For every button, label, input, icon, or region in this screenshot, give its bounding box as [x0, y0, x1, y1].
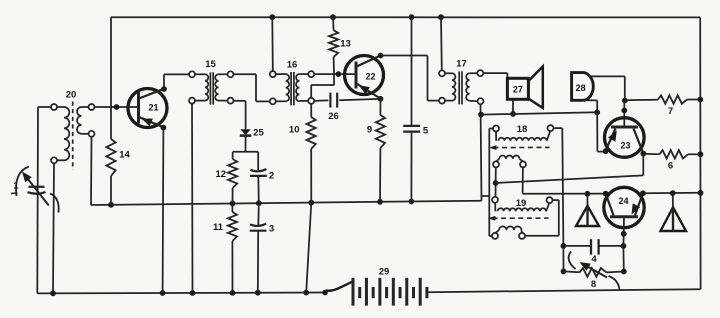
wire Q22 collector to T17 left-bottom: [378, 53, 439, 101]
transformer T20: [51, 90, 95, 171]
wire speaker box to lower wire: [510, 100, 516, 117]
resistor R14: [106, 139, 130, 205]
resistor R6: [643, 150, 703, 171]
svg-text:17: 17: [456, 59, 467, 70]
wire mid rail: [91, 201, 482, 205]
wire battery to bottom rail right: [426, 291, 428, 293]
svg-text:10: 10: [289, 125, 300, 136]
resistor R11: [213, 203, 237, 292]
wire Q23 emitter to lower node: [597, 112, 608, 154]
transistor Q24: [603, 187, 646, 227]
svg-text:11: 11: [213, 222, 224, 233]
wire left edge (antenna line): [36, 107, 39, 293]
capacitor C26: [314, 93, 380, 122]
junction dots on top rail: [269, 14, 444, 20]
svg-text:14: 14: [119, 150, 130, 161]
variable capacitor 1: [11, 167, 59, 213]
wire T15 right-top to T16 left-bottom: [234, 74, 270, 101]
wire earphone bottom to node: [584, 100, 598, 112]
wire Q21 collector up to T15: [161, 74, 189, 92]
svg-text:8: 8: [591, 279, 596, 290]
svg-text:28: 28: [576, 83, 586, 93]
wire T17 right-bottom down: [478, 104, 484, 201]
resistor R12: [216, 159, 238, 203]
wire node A to Q23 collector: [496, 175, 644, 183]
transformer T18: [489, 124, 554, 167]
svg-text:26: 26: [328, 111, 339, 122]
capacitor C2: [250, 169, 274, 203]
wire top supply rail: [111, 16, 700, 18]
wire right rail: [699, 17, 701, 289]
ground triangle left: [576, 191, 599, 226]
transformer T16: [270, 60, 314, 106]
wire earphone top to R7 node: [591, 76, 625, 100]
svg-text:19: 19: [516, 198, 527, 209]
resistor R7: [622, 95, 703, 117]
svg-text:5: 5: [423, 126, 429, 137]
earphone 28: [572, 73, 594, 101]
wire Q24 base down: [621, 217, 627, 275]
wire R13 to T16 right-bottom: [311, 74, 334, 98]
wire bottom rail left segment: [37, 292, 325, 295]
svg-text:16: 16: [287, 60, 298, 71]
wire T20 right-bottom to mid rail: [90, 137, 93, 205]
wire lower horizontal to headphone node: [481, 109, 600, 115]
wire bottom rail right segment: [427, 289, 700, 292]
junction dots on mid rail: [108, 199, 414, 208]
svg-text:9: 9: [367, 125, 372, 136]
wire Q23 collector node: [640, 151, 646, 176]
svg-text:29: 29: [379, 267, 390, 278]
svg-text:15: 15: [205, 59, 216, 70]
transformer T15: [189, 59, 234, 105]
svg-text:22: 22: [365, 72, 375, 82]
svg-text:13: 13: [340, 39, 351, 50]
wire T20 left-top to antenna line: [38, 106, 51, 108]
svg-text:6: 6: [668, 161, 673, 172]
wire IF bus left: [489, 129, 493, 237]
wire Q21 emitter down to bottom rail: [161, 125, 167, 293]
svg-text:2: 2: [269, 171, 274, 182]
svg-text:1: 1: [13, 181, 19, 192]
transformer T17: [439, 59, 484, 105]
wire bias bus right section: [643, 190, 703, 196]
wire T18 sec-left down to A-node: [493, 167, 499, 196]
svg-text:4: 4: [591, 254, 597, 265]
capacitor C5: [403, 17, 429, 201]
wire T20 left-bottom to bottom rail: [53, 163, 54, 293]
battery 29: [353, 267, 427, 306]
wire T18 prim-right jog down: [554, 128, 564, 271]
resistor R9: [367, 99, 385, 202]
svg-text:25: 25: [253, 128, 264, 139]
wire T20 right-top to Q21 base: [95, 104, 138, 110]
wire link to IF bus: [482, 195, 490, 197]
ground triangle right: [661, 190, 687, 231]
wire top-left corner down: [110, 17, 112, 139]
wire top rail to T17 left-top: [440, 17, 443, 70]
svg-text:18: 18: [517, 124, 528, 135]
svg-text:24: 24: [618, 196, 628, 206]
svg-text:12: 12: [216, 169, 227, 180]
svg-text:27: 27: [513, 85, 523, 95]
wire Q22 emitter node: [378, 96, 384, 102]
svg-text:7: 7: [668, 106, 673, 117]
svg-text:21: 21: [148, 103, 158, 113]
wire diode to R12/C2: [233, 152, 259, 170]
svg-text:20: 20: [66, 90, 77, 101]
wire T16 left-top to top rail: [271, 17, 274, 71]
svg-text:23: 23: [620, 141, 630, 151]
resistor R10: [289, 104, 316, 293]
diode D25: [240, 101, 265, 152]
transformer T19: [488, 197, 553, 239]
resistor R13: [329, 17, 351, 74]
wire T19 sec-right to prim-right: [525, 200, 559, 236]
junction dots on bottom rail: [50, 290, 309, 296]
variable resistor R8: [561, 252, 624, 291]
wire T16 right-top to Q22 base: [314, 71, 355, 77]
speaker 27: [483, 67, 543, 109]
wire T15 left-bottom to bottom rail: [191, 104, 194, 293]
capacitor C3: [250, 203, 274, 293]
switch arm at battery: [322, 282, 352, 296]
transistor Q23: [605, 101, 645, 158]
svg-text:3: 3: [269, 224, 274, 235]
transistor Q22: [345, 56, 384, 99]
wire T15 right-bottom to diode: [234, 100, 246, 102]
wire T18 sec-right down and right (bias bus): [523, 167, 606, 193]
capacitor C4: [561, 239, 624, 265]
transistor Q21: [128, 89, 167, 128]
